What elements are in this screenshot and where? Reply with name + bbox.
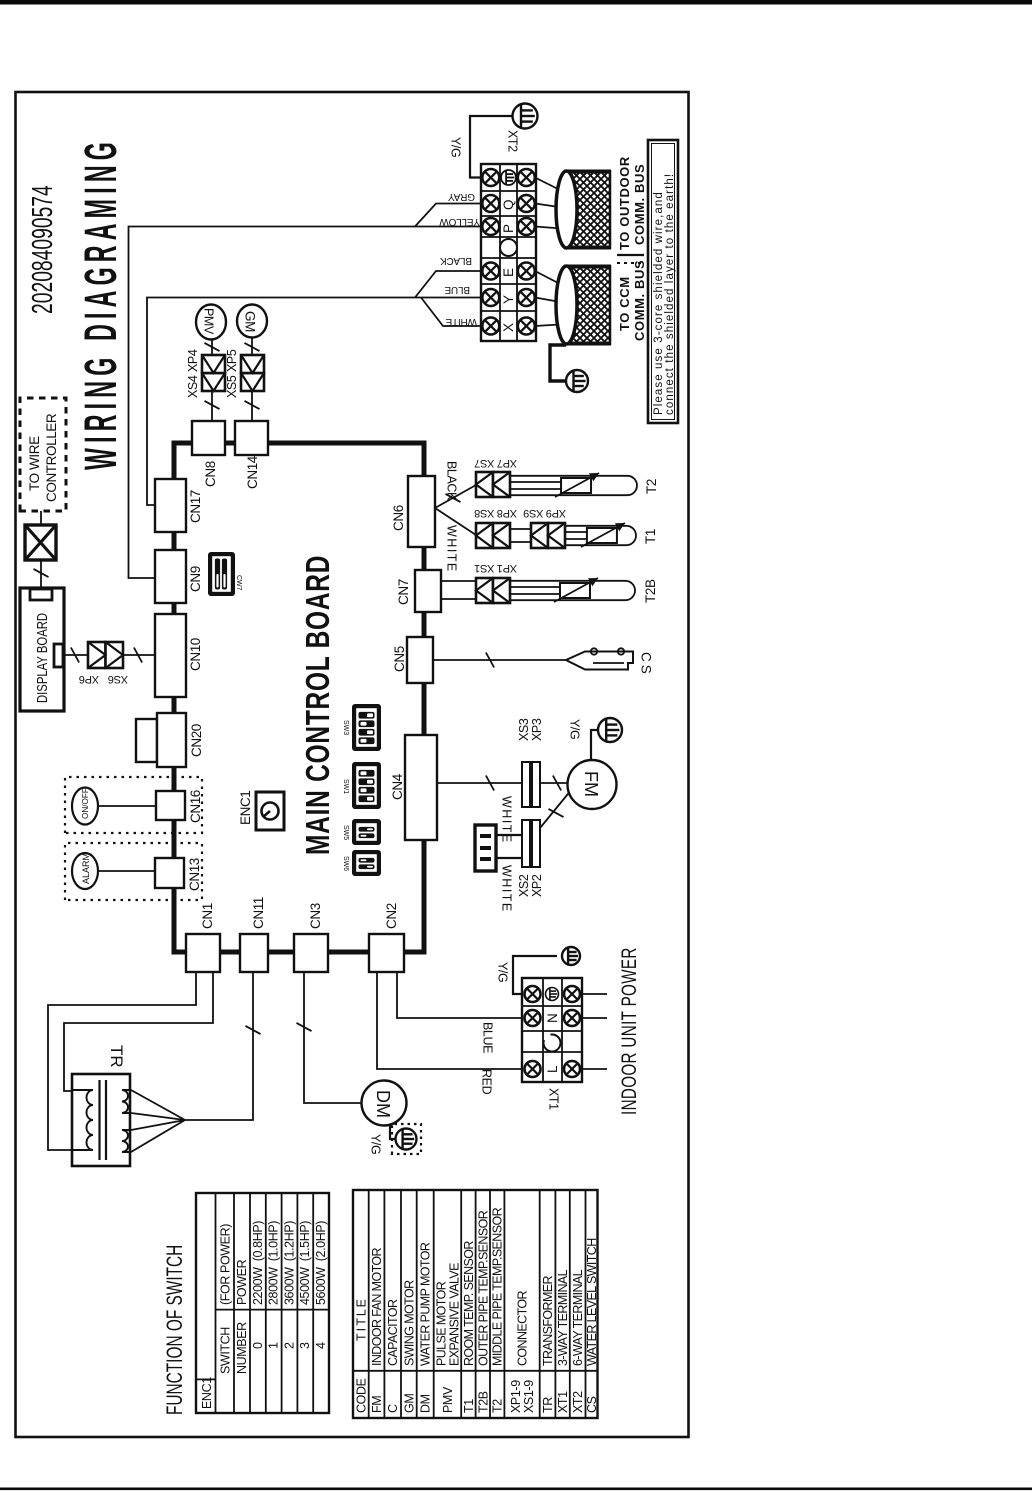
svg-text:YELLOW: YELLOW xyxy=(439,216,480,227)
connector pair XP1 XS1 xyxy=(474,562,517,603)
svg-text:OUTER PIPE TEMP.SENSOR: OUTER PIPE TEMP.SENSOR xyxy=(476,1210,490,1366)
svg-text:MAIN CONTROL BOARD: MAIN CONTROL BOARD xyxy=(299,555,336,855)
svg-text:TR: TR xyxy=(107,1045,126,1068)
earth screw at DM in dotted box xyxy=(392,1124,421,1154)
svg-text:T1: T1 xyxy=(643,529,658,544)
connector pair XP6 XS6 xyxy=(79,642,128,685)
connector CN5 xyxy=(392,637,433,683)
connector CN7 xyxy=(396,570,441,612)
svg-text:WHITE: WHITE xyxy=(445,316,477,327)
label BLUE xyxy=(444,284,470,295)
wire CN2 BLUE to XT1 N xyxy=(397,972,521,1018)
svg-text:XT2: XT2 xyxy=(506,130,520,152)
sensor T2 thermistor xyxy=(510,473,659,497)
main control board xyxy=(174,443,424,952)
svg-text:P: P xyxy=(501,224,516,233)
svg-text:(FOR POWER): (FOR POWER) xyxy=(219,1224,233,1305)
svg-text:0: 0 xyxy=(251,1342,265,1349)
connector CN14 xyxy=(235,421,268,489)
motor GM swing motor xyxy=(237,305,267,338)
svg-text:CONNECTOR: CONNECTOR xyxy=(516,1290,530,1366)
connector CN13 xyxy=(155,858,202,891)
wire DM earth xyxy=(390,1125,397,1139)
svg-text:C: C xyxy=(386,1404,400,1413)
svg-text:T2B: T2B xyxy=(643,579,658,603)
svg-text:GRAY: GRAY xyxy=(448,191,475,202)
svg-text:T1: T1 xyxy=(462,1399,476,1413)
label WHITE xyxy=(445,316,477,327)
svg-text:CN1: CN1 xyxy=(200,903,215,929)
rotary encoder ENC1 xyxy=(238,791,284,830)
DIP switch SW1 xyxy=(342,762,381,809)
wire XT2 earth Y/G xyxy=(470,116,512,178)
svg-text:T2: T2 xyxy=(491,1399,505,1413)
svg-text:TO OUTDOOR: TO OUTDOOR xyxy=(617,156,632,250)
connector CN4 xyxy=(390,735,437,840)
connector pair XS5 XP5 xyxy=(225,349,264,398)
dotted box ON/OFF switch xyxy=(65,777,202,833)
svg-text:CN9: CN9 xyxy=(188,566,203,592)
svg-text:GM: GM xyxy=(402,1394,416,1413)
svg-text:XS1-9: XS1-9 xyxy=(522,1380,536,1413)
dotted box ALARM xyxy=(65,843,202,900)
wire CN5 to CS xyxy=(433,653,566,668)
motor FM indoor fan motor xyxy=(568,760,617,809)
wire CN2 RED to XT1 L xyxy=(377,972,521,1069)
svg-text:CN16: CN16 xyxy=(188,790,203,823)
connector CN10 xyxy=(155,614,203,697)
label XS3 XP3 xyxy=(517,718,544,741)
sensor T1 thermistor xyxy=(565,523,658,547)
scan edge bar top xyxy=(0,0,1032,5)
motor DM water pump xyxy=(362,1081,407,1126)
connector CN9 xyxy=(155,550,203,603)
wires WHITE plug to XS2 xyxy=(496,835,522,858)
svg-text:SW3: SW3 xyxy=(342,720,349,735)
svg-text:CN2: CN2 xyxy=(384,903,399,929)
svg-text:BLUE: BLUE xyxy=(444,284,470,295)
wire XT1 earth Y/G xyxy=(513,956,557,994)
wires XS8 to XP9 xyxy=(510,529,531,542)
wire CN11 to TR secondary fan xyxy=(185,972,261,1120)
svg-text:Q: Q xyxy=(501,200,516,210)
svg-text:CN13: CN13 xyxy=(187,858,202,891)
note box 3-core shielded wire xyxy=(648,140,678,423)
label FUNCTION OF SWITCH xyxy=(163,1245,188,1415)
connector pair XP9 XS9 xyxy=(523,507,566,548)
earth screw at FM xyxy=(598,718,622,742)
svg-text:MIDDLE PIPE TEMP.SENSOR: MIDDLE PIPE TEMP.SENSOR xyxy=(491,1207,505,1366)
svg-text:connect the shielded layer to: connect the shielded layer to the earth! xyxy=(664,173,676,415)
svg-text:XS2: XS2 xyxy=(517,874,531,897)
svg-text:ENC1: ENC1 xyxy=(238,791,253,825)
label YELLOW xyxy=(439,216,480,227)
label BLUE xyxy=(481,1022,495,1053)
svg-text:WATER PUMP MOTOR: WATER PUMP MOTOR xyxy=(419,1242,433,1366)
connector pair XP8 XS8 xyxy=(474,507,517,548)
wires CN7 to XP1 xyxy=(441,581,476,599)
svg-text:202084090574: 202084090574 xyxy=(27,185,59,314)
motor PMV pulse motor valve xyxy=(196,305,226,340)
connector CN3 xyxy=(294,903,328,972)
svg-text:XP1 XS1: XP1 XS1 xyxy=(474,562,517,574)
label XT1 xyxy=(547,1088,561,1110)
DIP switch SW3 xyxy=(342,704,381,751)
terminal block XT2 6-way xyxy=(481,164,536,341)
svg-text:Y/G: Y/G xyxy=(369,1134,383,1154)
svg-text:WHITE: WHITE xyxy=(500,865,514,913)
part number 202084090574 xyxy=(27,185,59,314)
svg-text:PMV: PMV xyxy=(202,308,216,335)
svg-text:XP5: XP5 xyxy=(225,349,239,372)
svg-text:SWING MOTOR: SWING MOTOR xyxy=(402,1280,416,1366)
connector CN16 xyxy=(156,790,203,823)
wire CN3 to DM xyxy=(297,972,362,1103)
svg-text:3600W (1.2HP): 3600W (1.2HP) xyxy=(282,1221,296,1305)
dashed box TO WIRE CONTROLLER xyxy=(20,398,66,511)
label INDOOR UNIT POWER xyxy=(617,947,640,1115)
svg-text:XP2: XP2 xyxy=(530,874,544,897)
svg-text:4: 4 xyxy=(314,1342,328,1349)
svg-text:GM: GM xyxy=(243,311,258,332)
svg-text:ENC1: ENC1 xyxy=(200,1377,214,1409)
DIP switch SW5 xyxy=(342,819,381,845)
TR secondary fan wires xyxy=(131,1090,185,1152)
label WHITE right xyxy=(500,796,514,844)
connector CN8 xyxy=(192,421,225,487)
label BLACK xyxy=(440,255,472,266)
connector pair XS4 XP4 xyxy=(186,349,225,398)
svg-text:INDOOR UNIT POWER: INDOOR UNIT POWER xyxy=(617,947,640,1115)
svg-text:FM: FM xyxy=(581,771,601,797)
svg-text:BLUE: BLUE xyxy=(481,1022,495,1053)
svg-text:XT2: XT2 xyxy=(571,1391,585,1413)
water level switch CS xyxy=(566,648,633,669)
label Y/G at FM xyxy=(568,719,582,739)
wire XS3 to FM xyxy=(540,776,569,791)
svg-text:ROOM TEMP. SENSOR: ROOM TEMP. SENSOR xyxy=(462,1241,476,1366)
svg-text:DM: DM xyxy=(419,1394,433,1413)
svg-text:RED: RED xyxy=(480,1069,494,1095)
display board DISPLAY BOARD xyxy=(20,588,64,711)
XT1 field wiring stubs xyxy=(582,994,607,1069)
connector to wire controller (plug symbol) xyxy=(25,525,56,560)
connector CN1 xyxy=(186,903,220,972)
svg-text:3: 3 xyxy=(298,1342,312,1349)
svg-text:WHITE: WHITE xyxy=(445,525,459,573)
svg-text:COMM. BUS: COMM. BUS xyxy=(632,260,647,341)
svg-text:SW5: SW5 xyxy=(342,825,349,840)
svg-text:CONTROLLER: CONTROLLER xyxy=(44,413,59,502)
svg-text:E: E xyxy=(501,268,516,277)
svg-text:XP8 XS8: XP8 XS8 xyxy=(474,507,517,519)
svg-text:SW6: SW6 xyxy=(342,856,349,871)
label Y/G at DM xyxy=(369,1134,383,1154)
svg-text:XT1: XT1 xyxy=(556,1391,570,1413)
svg-text:1: 1 xyxy=(267,1342,281,1349)
svg-text:Y: Y xyxy=(501,295,516,304)
svg-text:2: 2 xyxy=(282,1342,296,1349)
svg-text:3-WAY TERMINAL: 3-WAY TERMINAL xyxy=(556,1269,570,1366)
connector CN20 with mating plug xyxy=(136,713,204,767)
wire XS6 to CN10 xyxy=(123,648,155,663)
svg-text:EXPANSIVE VALVE: EXPANSIVE VALVE xyxy=(447,1263,461,1366)
svg-text:NUMBER: NUMBER xyxy=(235,1322,249,1374)
svg-text:SWITCH: SWITCH xyxy=(219,1327,233,1374)
label WHITE at CN6 xyxy=(445,525,459,573)
svg-text:PULSE MOTOR: PULSE MOTOR xyxy=(434,1281,448,1366)
svg-text:X: X xyxy=(501,323,516,332)
svg-text:DISPLAY BOARD: DISPLAY BOARD xyxy=(34,613,51,703)
svg-text:CN3: CN3 xyxy=(308,903,323,929)
svg-text:XP1-9: XP1-9 xyxy=(509,1380,523,1413)
svg-text:C S: C S xyxy=(639,652,654,674)
wire CN17 to XT2 Y terminal (BLUE) with BLACK and WHITE branches xyxy=(147,271,481,505)
label CS xyxy=(639,652,654,674)
svg-text:N: N xyxy=(545,1014,560,1023)
svg-text:DM: DM xyxy=(373,1090,393,1118)
svg-text:XP7 XS7: XP7 XS7 xyxy=(474,457,517,469)
earth screw at XT2 xyxy=(513,104,538,129)
svg-text:WHITE: WHITE xyxy=(500,796,514,844)
shielded cable to outdoor xyxy=(556,78,611,427)
divider between bus labels xyxy=(617,255,644,263)
svg-text:TO CCM: TO CCM xyxy=(617,276,632,331)
svg-text:CW7: CW7 xyxy=(235,575,242,591)
switch SW7 xyxy=(208,552,242,596)
svg-text:CODE: CODE xyxy=(354,1378,368,1413)
svg-text:CS: CS xyxy=(585,1396,599,1413)
wire FM earth Y/G xyxy=(591,730,598,760)
wire CN8 to XS4 xyxy=(205,391,220,421)
svg-text:ALARM: ALARM xyxy=(81,853,91,884)
transformer TR xyxy=(72,1045,130,1166)
label XT2 xyxy=(506,130,520,152)
label TO OUTDOOR COMM. BUS xyxy=(617,156,647,250)
svg-text:CN7: CN7 xyxy=(396,579,411,605)
connector pair XP7 XS7 xyxy=(474,457,517,497)
connector CN17 xyxy=(155,479,203,532)
table function of switch xyxy=(196,1193,329,1413)
svg-text:T2B: T2B xyxy=(476,1391,490,1413)
label TO CCM COMM. BUS xyxy=(617,260,647,341)
wire controller-box to plug xyxy=(40,511,42,525)
wire CN4 to XS3 xyxy=(437,776,522,791)
svg-text:FM: FM xyxy=(370,1396,384,1413)
svg-text:Y/G: Y/G xyxy=(496,962,510,982)
connector XS2/XP2 bars xyxy=(522,820,540,867)
svg-text:XP9 XS9: XP9 XS9 xyxy=(523,507,566,519)
label WHITE left xyxy=(500,865,514,913)
svg-text:XP3: XP3 xyxy=(530,718,544,741)
wire XP4 to PMV xyxy=(205,339,220,355)
svg-text:CN8: CN8 xyxy=(203,461,218,487)
wire display board to XP6 xyxy=(63,648,88,663)
svg-text:XS3: XS3 xyxy=(517,718,531,741)
svg-text:COMM. BUS: COMM. BUS xyxy=(632,164,647,245)
svg-text:CAPACITOR: CAPACITOR xyxy=(386,1299,400,1366)
svg-text:Y/G: Y/G xyxy=(449,137,463,157)
wires CN6 fan to sensor connectors xyxy=(435,485,476,535)
svg-text:CN11: CN11 xyxy=(251,897,266,929)
wire ON/OFF to CN16 xyxy=(98,805,156,807)
svg-text:WATER LEVEL SWITCH: WATER LEVEL SWITCH xyxy=(585,1238,599,1366)
scan edge line bottom xyxy=(0,1488,1032,1491)
svg-text:CN17: CN17 xyxy=(188,490,203,523)
svg-text:XT1: XT1 xyxy=(547,1088,561,1110)
wires XT2 to CCM cable xyxy=(535,271,568,326)
label Y/G at XT2 xyxy=(449,137,463,157)
svg-text:Y/G: Y/G xyxy=(568,719,582,739)
label BLACK at CN6 xyxy=(445,461,459,501)
svg-text:TRANSFORMER: TRANSFORMER xyxy=(541,1275,555,1366)
svg-text:XS5: XS5 xyxy=(225,375,239,398)
svg-text:2200W (0.8HP): 2200W (0.8HP) xyxy=(251,1221,265,1305)
table component codes xyxy=(353,1190,599,1418)
svg-text:2800W (1.0HP): 2800W (1.0HP) xyxy=(267,1221,281,1305)
svg-text:POWER: POWER xyxy=(235,1259,249,1305)
DIP switch SW6 xyxy=(342,850,381,876)
svg-text:CN4: CN4 xyxy=(390,773,405,800)
shielded cable to CCM xyxy=(556,174,611,523)
connector CN11 xyxy=(240,897,268,972)
svg-text:PMV: PMV xyxy=(441,1386,455,1413)
svg-text:XS6: XS6 xyxy=(108,673,128,685)
svg-text:CN20: CN20 xyxy=(189,724,204,757)
svg-text:INDOOR FAN MOTOR: INDOOR FAN MOTOR xyxy=(370,1247,384,1366)
sensor T2B thermistor xyxy=(510,578,658,603)
svg-text:XS4: XS4 xyxy=(186,375,200,398)
plug WHITE 3-pin xyxy=(475,825,496,871)
frame border xyxy=(16,92,689,1437)
label GRAY xyxy=(448,191,475,202)
svg-text:XP4: XP4 xyxy=(186,349,200,372)
svg-text:T2: T2 xyxy=(644,479,659,494)
svg-text:WIRING DIAGRAMING: WIRING DIAGRAMING xyxy=(76,137,127,470)
svg-text:CN10: CN10 xyxy=(188,638,203,671)
label XS2 XP2 xyxy=(517,874,544,897)
svg-text:XP6: XP6 xyxy=(79,673,99,685)
wire plug to display board xyxy=(34,560,49,590)
terminal block XT1 3-way xyxy=(522,978,582,1082)
wire FM to XS2 diagonal xyxy=(540,789,572,828)
svg-text:CN14: CN14 xyxy=(245,455,260,489)
svg-text:5600W (2.0HP): 5600W (2.0HP) xyxy=(314,1221,328,1305)
svg-text:ON/OFF: ON/OFF xyxy=(81,788,90,819)
svg-text:BLACK: BLACK xyxy=(440,255,472,266)
svg-text:TR: TR xyxy=(541,1397,555,1413)
earth screw at cable shield xyxy=(566,370,588,392)
label Y/G at XT1 xyxy=(496,962,510,982)
cable shield earth wire xyxy=(550,345,566,381)
wire XP5 to GM xyxy=(245,338,260,355)
wires XT2 to outdoor cable xyxy=(535,178,568,230)
wire ALARM to CN13 xyxy=(98,870,155,872)
wire CN9 to XT2 P terminal (YELLOW) with GRAY branch xyxy=(129,204,482,579)
svg-text:4500W (1.5HP): 4500W (1.5HP) xyxy=(298,1221,312,1305)
label RED xyxy=(480,1069,494,1095)
svg-text:BLACK: BLACK xyxy=(445,461,459,501)
title WIRING DIAGRAMING xyxy=(76,137,127,470)
svg-text:L: L xyxy=(545,1065,560,1073)
svg-text:FUNCTION OF SWITCH: FUNCTION OF SWITCH xyxy=(163,1245,188,1415)
svg-text:6-WAY TERMINAL: 6-WAY TERMINAL xyxy=(571,1269,585,1366)
earth screw at XT1 xyxy=(562,947,580,965)
connector CN2 xyxy=(369,903,404,972)
svg-text:TO WIRE: TO WIRE xyxy=(27,436,42,491)
wires CN1 to TR primary xyxy=(48,972,213,1150)
connector CN6 xyxy=(391,476,435,547)
wire CN14 to XS5 xyxy=(245,391,260,421)
connector XS3/XP3 bars xyxy=(522,762,540,807)
svg-text:CN6: CN6 xyxy=(391,505,406,531)
svg-text:CN5: CN5 xyxy=(392,646,407,672)
svg-text:T I T L E: T I T L E xyxy=(354,1299,368,1341)
svg-text:SW1: SW1 xyxy=(342,779,349,794)
